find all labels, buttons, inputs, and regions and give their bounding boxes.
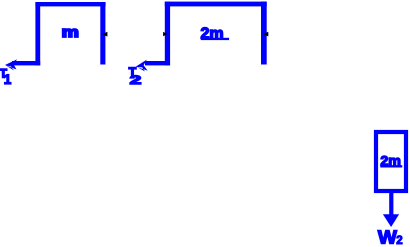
svg-text:1: 1 — [4, 72, 12, 87]
svg-text:m: m — [62, 24, 79, 41]
weight arrow W2 shaft — [389, 191, 393, 215]
svg-text:W: W — [378, 228, 397, 247]
label T2 — [129, 65, 142, 87]
hanging block 2m (rectangle outline) — [376, 132, 406, 191]
tension arrow T1 wire — [12, 61, 40, 65]
label W2 — [378, 228, 403, 247]
label 2m (hanging block) — [380, 153, 402, 169]
black arrowhead into block m right edge — [103, 32, 108, 37]
black arrowhead into block 2m right edge — [263, 32, 268, 37]
weight arrow W2 head — [383, 214, 399, 227]
tension arrow T2 wire — [145, 61, 170, 65]
svg-text:2: 2 — [130, 73, 142, 87]
black arrowhead into block 2m left edge — [163, 32, 167, 36]
svg-text:2: 2 — [396, 235, 402, 247]
block m (inverted-U outline) — [35, 2, 105, 65]
label T1 — [0, 66, 12, 87]
tension arrow T2 head — [136, 60, 148, 72]
tension arrow T1 head — [5, 59, 17, 70]
label 2m — [201, 26, 230, 43]
block 2m (inverted-U outline) — [165, 2, 267, 66]
